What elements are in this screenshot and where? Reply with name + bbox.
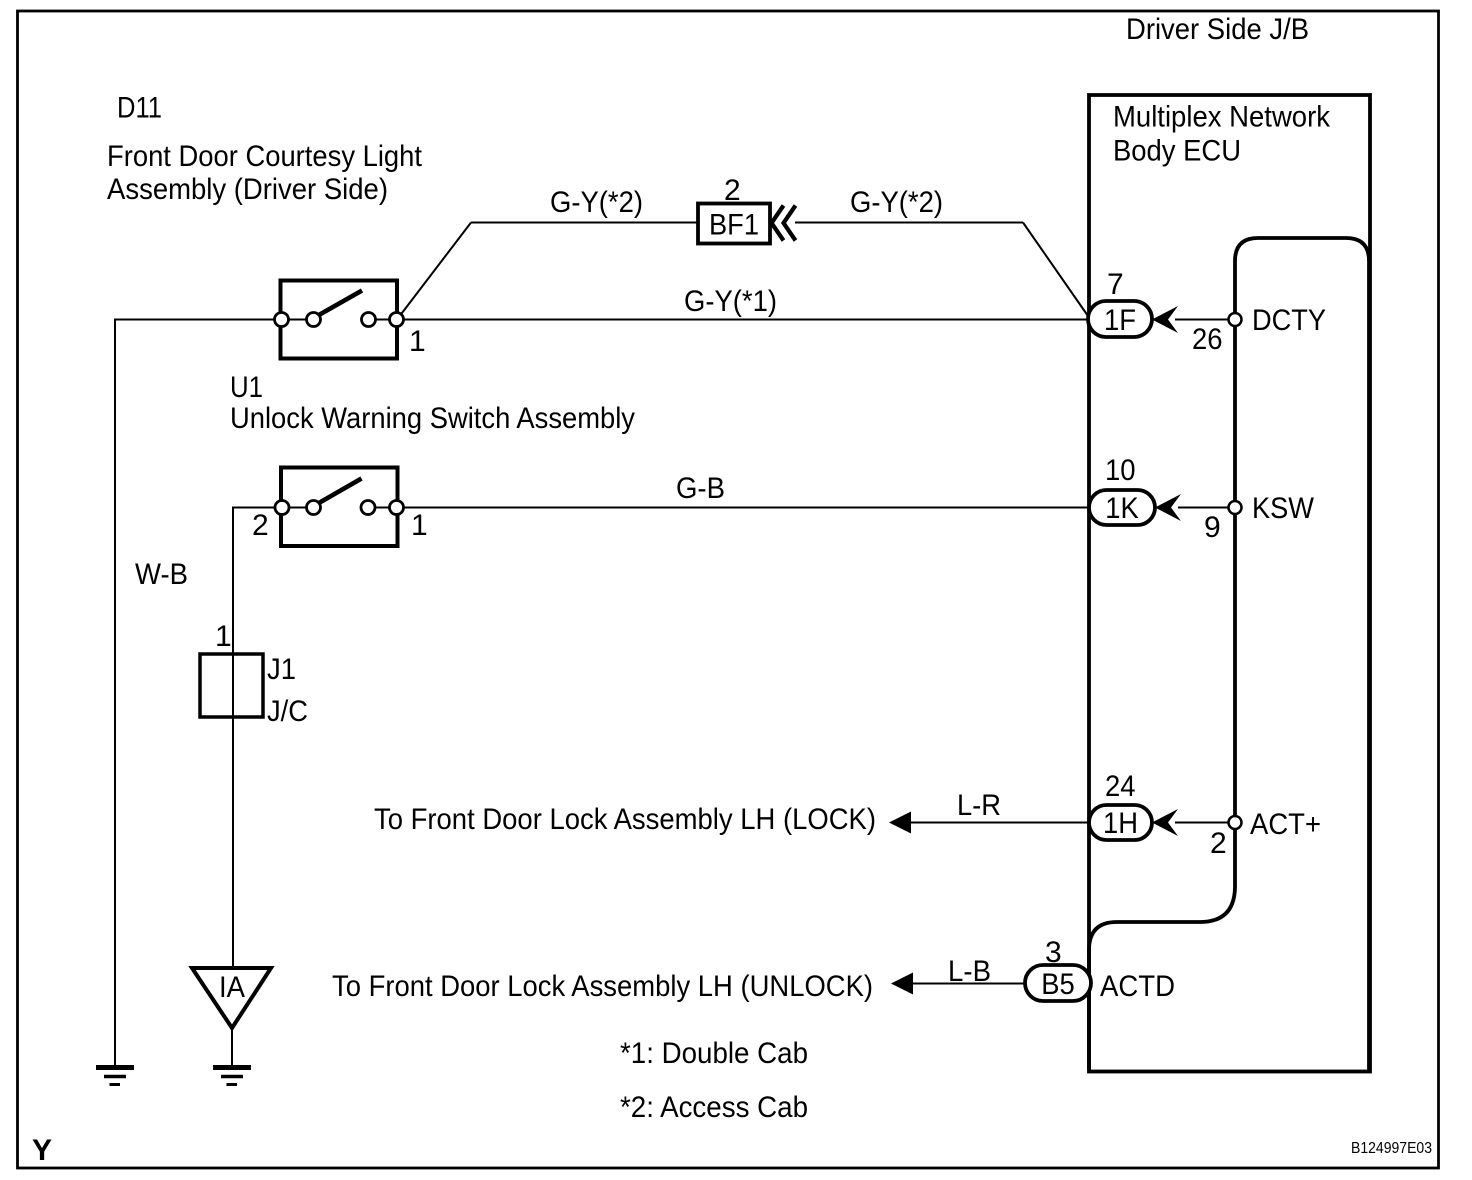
wire W-B from D11 switch down to left ground — [115, 320, 281, 1066]
svg-text:24: 24 — [1105, 770, 1136, 803]
svg-text:7: 7 — [1107, 268, 1124, 301]
switch U1 lever — [318, 479, 362, 504]
connector B5 — [1025, 965, 1091, 1001]
svg-text:*1: Double Cab: *1: Double Cab — [620, 1037, 808, 1070]
connector chevrons at fuse BF1 — [772, 206, 796, 241]
wire G-Y(*2) right segment — [795, 222, 1023, 224]
wire G-B from U1 pin 1 to connector 1K — [397, 507, 1089, 509]
arrowhead (UNLOCK) — [891, 973, 913, 995]
wire L-B from B5 to UNLOCK arrow — [913, 983, 1025, 985]
wire 1H to ACT+ junction — [1175, 822, 1229, 824]
arrow into 1H — [1152, 809, 1178, 836]
connector 1F — [1088, 301, 1152, 337]
arrowhead (LOCK) — [889, 812, 911, 834]
wire W-B from U1 pin 2 down through J1 to IA — [233, 508, 282, 969]
svg-text:To Front Door Lock Assembly LH: To Front Door Lock Assembly LH (LOCK) — [374, 803, 876, 836]
switch U1 (unlock warning switch) box — [281, 468, 398, 547]
svg-text:ACT+: ACT+ — [1250, 808, 1321, 841]
wire IA to ground — [231, 1028, 233, 1065]
svg-text:KSW: KSW — [1252, 492, 1315, 525]
svg-text:DCTY: DCTY — [1252, 304, 1326, 337]
ground triangle IA — [192, 968, 271, 1028]
wire diagonal down into connector 1F — [1023, 223, 1088, 317]
svg-text:1K: 1K — [1105, 492, 1139, 525]
switch U1 contact wires — [282, 507, 314, 509]
svg-text:IA: IA — [219, 971, 245, 1004]
svg-text:G-Y(*2): G-Y(*2) — [550, 186, 643, 219]
connector 1K — [1089, 490, 1155, 525]
svg-text:*2: Access Cab: *2: Access Cab — [620, 1091, 808, 1124]
switch D11 contact wires — [281, 319, 314, 321]
node DCTY junction — [1229, 313, 1242, 326]
svg-text:Front Door Courtesy Light: Front Door Courtesy Light — [107, 140, 423, 173]
switch D11 terminals — [275, 313, 404, 327]
svg-text:To Front Door Lock Assembly LH: To Front Door Lock Assembly LH (UNLOCK) — [332, 970, 873, 1003]
svg-text:10: 10 — [1105, 454, 1136, 487]
ground (right) — [213, 1068, 251, 1085]
svg-text:2: 2 — [724, 174, 741, 207]
svg-text:Assembly (Driver Side): Assembly (Driver Side) — [107, 173, 388, 206]
svg-text:J1: J1 — [267, 653, 296, 686]
svg-text:9: 9 — [1204, 511, 1221, 544]
svg-text:Multiplex Network: Multiplex Network — [1113, 101, 1331, 134]
arrow into 1K — [1155, 494, 1181, 521]
svg-text:L-B: L-B — [948, 955, 991, 988]
ECU internal bus bar (rounded path) — [1089, 238, 1369, 1070]
svg-text:1: 1 — [215, 620, 232, 653]
wire G-Y(*1) from D11 pin 1 to connector 1F — [397, 319, 1088, 321]
svg-text:BF1: BF1 — [709, 209, 759, 242]
ground (left) — [96, 1068, 134, 1085]
junction connector J1 box — [200, 654, 263, 717]
node ACT+ junction — [1229, 816, 1242, 829]
svg-text:G-B: G-B — [676, 472, 725, 505]
switch D11 (courtesy light switch) box — [281, 281, 398, 359]
svg-text:Driver Side J/B: Driver Side J/B — [1126, 13, 1309, 46]
wire 1K to KSW junction — [1178, 507, 1229, 509]
switch U1 terminals — [275, 501, 404, 515]
node KSW junction — [1229, 501, 1242, 514]
wire L-R from 1H to LOCK arrow — [911, 822, 1089, 824]
svg-text:B124997E03: B124997E03 — [1351, 1140, 1432, 1157]
svg-text:Y: Y — [32, 1134, 52, 1167]
svg-text:2: 2 — [252, 509, 269, 542]
switch D11 lever — [318, 291, 362, 316]
svg-text:1: 1 — [411, 509, 428, 542]
svg-text:G-Y(*1): G-Y(*1) — [684, 285, 777, 318]
connector 1H — [1089, 805, 1152, 840]
ECU box (Multiplex Network Body ECU) — [1089, 95, 1370, 1072]
svg-text:U1: U1 — [230, 371, 263, 404]
svg-text:D11: D11 — [117, 92, 162, 125]
wire diagonal from D11 pin 1 up to fuse branch — [397, 223, 471, 320]
wire 1F to DCTY junction — [1175, 319, 1229, 321]
svg-text:Body ECU: Body ECU — [1113, 135, 1241, 168]
svg-text:ACTD: ACTD — [1100, 970, 1175, 1003]
svg-text:Unlock Warning Switch Assembly: Unlock Warning Switch Assembly — [230, 402, 635, 435]
svg-text:1H: 1H — [1103, 807, 1138, 840]
svg-text:2: 2 — [1210, 827, 1227, 860]
fuse BF1 — [698, 204, 770, 244]
svg-text:J/C: J/C — [267, 695, 308, 728]
wire G-Y(*2) left segment — [471, 222, 698, 224]
svg-text:G-Y(*2): G-Y(*2) — [850, 186, 943, 219]
arrow into 1F — [1152, 306, 1178, 333]
svg-text:W-B: W-B — [135, 558, 188, 591]
svg-text:B5: B5 — [1041, 968, 1075, 1001]
svg-text:1: 1 — [409, 325, 426, 358]
svg-text:L-R: L-R — [957, 789, 1001, 822]
svg-text:1F: 1F — [1104, 304, 1136, 337]
svg-text:26: 26 — [1192, 323, 1223, 356]
